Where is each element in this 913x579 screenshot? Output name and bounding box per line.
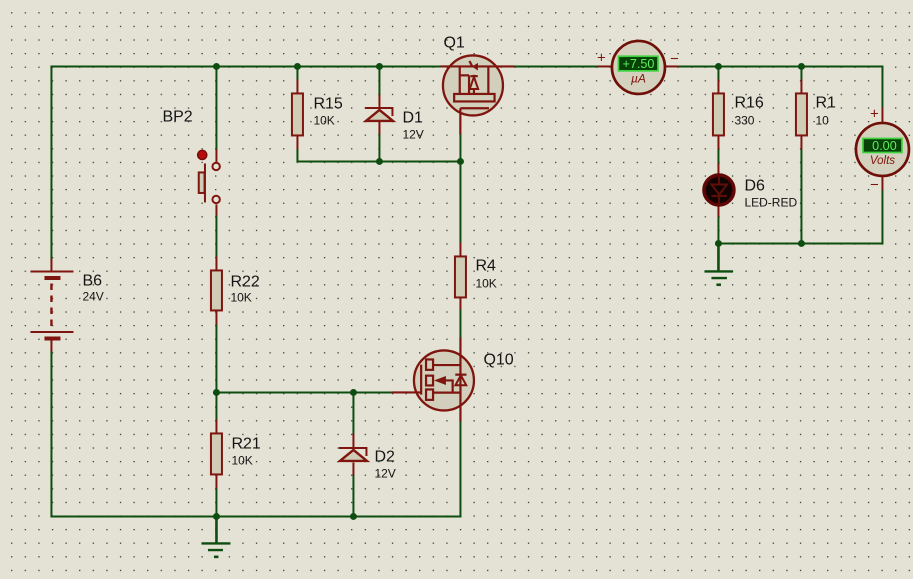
wire voltmeter bottom to bottom-right rail bbox=[718, 190, 882, 243]
ammeter (microamps) bbox=[597, 41, 679, 94]
junction node: D1 bottom / mid rail bbox=[376, 158, 383, 165]
svg-text:+: + bbox=[870, 105, 879, 122]
svg-text:10K: 10K bbox=[230, 290, 251, 304]
svg-text:D6: D6 bbox=[744, 177, 765, 194]
svg-text:B6: B6 bbox=[82, 272, 102, 289]
wire left rail upper bbox=[50, 66, 52, 258]
wire R15 top bbox=[296, 66, 298, 79]
svg-text:10K: 10K bbox=[313, 113, 334, 127]
wire R15 bottom to mid rail bbox=[297, 149, 460, 161]
wire R21 to bottom rail bbox=[215, 488, 217, 516]
junction node: D6 cathode / bottom-right rail / ground bbox=[715, 240, 722, 247]
battery B6 bbox=[30, 258, 103, 351]
wire LED D6 to bottom-right rail bbox=[717, 216, 719, 243]
svg-text:µA: µA bbox=[631, 71, 646, 85]
svg-text:10: 10 bbox=[815, 113, 829, 127]
wire R4 to Q10 drain bbox=[459, 309, 461, 337]
svg-text:+: + bbox=[597, 49, 606, 66]
wire top rail ammeter to right corner, down to voltmeter bbox=[678, 66, 882, 107]
LED D6 LED-RED bbox=[704, 163, 798, 216]
svg-text:R15: R15 bbox=[313, 95, 342, 112]
svg-text:LED-RED: LED-RED bbox=[744, 195, 797, 209]
MOSFET Q10 (N-channel) bbox=[391, 337, 513, 421]
zener diode D1 12V bbox=[365, 94, 424, 141]
junction node: R22-R21 / gate rail bbox=[213, 389, 220, 396]
wire R16 top bbox=[717, 66, 719, 79]
wire D2 bottom bbox=[352, 475, 354, 516]
ground (bottom left) bbox=[201, 516, 230, 556]
svg-text:10K: 10K bbox=[475, 276, 496, 290]
resistor R4 bbox=[455, 242, 497, 309]
resistor R15 bbox=[292, 79, 343, 149]
junction node: D1 branch / top rail bbox=[376, 63, 383, 70]
junction node: BP2 branch / top rail bbox=[213, 63, 220, 70]
resistor R21 bbox=[211, 419, 261, 488]
svg-text:BP2: BP2 bbox=[162, 108, 192, 125]
junction node: R1 branch / top rail bbox=[798, 63, 805, 70]
wire mid rail to R4 bbox=[459, 161, 461, 242]
junction node: D2 top / gate rail bbox=[350, 389, 357, 396]
wire R1 bottom bbox=[800, 149, 802, 243]
svg-text:Q1: Q1 bbox=[443, 34, 464, 51]
wire R16 to LED D6 bbox=[717, 149, 719, 163]
MOSFET Q1 (P-channel) bbox=[440, 34, 514, 134]
svg-text:−: − bbox=[870, 176, 879, 193]
svg-text:12V: 12V bbox=[402, 127, 423, 141]
svg-text:R4: R4 bbox=[475, 257, 496, 274]
junction node: Q1 gate / mid rail / R4 bbox=[457, 158, 464, 165]
wire BP2 top bbox=[215, 66, 217, 149]
svg-text:R21: R21 bbox=[231, 435, 260, 452]
junction node: R1 bottom / bottom-right rail bbox=[798, 240, 805, 247]
junction node: D2 bottom / bottom rail bbox=[350, 513, 357, 520]
svg-text:D1: D1 bbox=[402, 109, 423, 126]
voltmeter bbox=[856, 105, 909, 193]
wire D1 top bbox=[378, 66, 380, 94]
zener diode D2 12V bbox=[339, 433, 396, 480]
wire gate rail bbox=[216, 391, 391, 393]
wire left rail lower and bottom rail bbox=[51, 351, 460, 516]
junction node: R16 branch / top rail bbox=[715, 63, 722, 70]
svg-text:+7.50: +7.50 bbox=[623, 57, 655, 71]
resistor R1 bbox=[796, 79, 836, 149]
wire Q10 source to bottom rail bbox=[459, 421, 461, 516]
pushbutton BP2 bbox=[162, 108, 219, 215]
junction node: R21 bottom / bottom rail / ground bbox=[213, 513, 220, 520]
resistor R16 bbox=[713, 79, 764, 149]
wire top rail Q1 to ammeter bbox=[514, 65, 597, 67]
wire Q1 gate to mid rail bbox=[459, 134, 461, 161]
svg-text:D2: D2 bbox=[374, 448, 395, 465]
svg-text:−: − bbox=[670, 50, 679, 67]
svg-text:R22: R22 bbox=[230, 273, 259, 290]
wire BP2 to R22 bbox=[215, 215, 217, 256]
svg-text:Q10: Q10 bbox=[483, 351, 513, 368]
wire R22 to R21 bbox=[215, 324, 217, 419]
wire D1 bottom bbox=[378, 134, 380, 161]
svg-text:10K: 10K bbox=[231, 453, 252, 467]
wire D2 top bbox=[352, 392, 354, 433]
wire top rail left bbox=[51, 65, 440, 67]
svg-text:24V: 24V bbox=[82, 289, 103, 303]
svg-text:R16: R16 bbox=[734, 94, 763, 111]
svg-text:R1: R1 bbox=[815, 94, 836, 111]
junction node: R15 branch / top rail bbox=[294, 63, 301, 70]
svg-text:0.00: 0.00 bbox=[872, 139, 897, 153]
svg-text:Volts: Volts bbox=[870, 155, 895, 167]
svg-text:330: 330 bbox=[734, 113, 754, 127]
resistor R22 bbox=[211, 256, 260, 324]
svg-text:12V: 12V bbox=[374, 466, 395, 480]
wire R1 top bbox=[800, 66, 802, 79]
ground (under D6) bbox=[704, 243, 733, 284]
